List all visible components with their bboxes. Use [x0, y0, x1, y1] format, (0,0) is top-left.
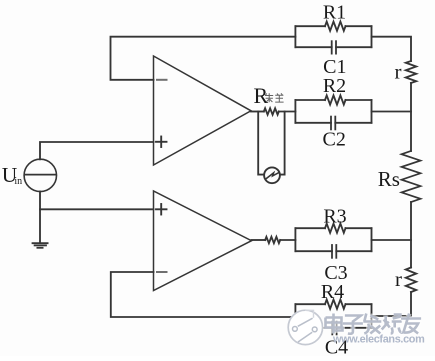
- svg-text:R2: R2: [323, 75, 346, 97]
- wire: R2 output to rail: [372, 111, 412, 113]
- capacitor C1: [295, 41, 371, 53]
- capacitor C2: [295, 117, 371, 130]
- ground: [33, 243, 48, 248]
- wire: source bottom / node to U2 + input: [39, 192, 41, 243]
- wire: to R3 box: [280, 239, 295, 241]
- resistor (U2 output series): [265, 237, 280, 243]
- watermark text dianzifashaoyou: [326, 314, 343, 334]
- wire: node r / R2 junction: [410, 83, 412, 151]
- wire: R1 output to top of rail: [372, 37, 412, 61]
- wire: U1 inverting feedback: [111, 37, 296, 80]
- wire: U2 output: [252, 239, 266, 241]
- wire: R3 output to rail: [372, 239, 412, 241]
- resistor R4 (parallel box): [295, 300, 371, 328]
- svg-text:r: r: [395, 267, 402, 291]
- svg-text:in: in: [14, 176, 22, 187]
- resistor R1 (with C1 parallel box): [295, 22, 371, 48]
- wire: meter right branch: [280, 112, 285, 175]
- meter (galvanometer): [264, 167, 280, 183]
- wire: source top to U1 + input: [40, 142, 154, 159]
- resistor r (top): [406, 61, 416, 83]
- capacitor C4: [295, 322, 371, 335]
- wire: R_sampling to R2 box: [279, 111, 296, 113]
- op-amp U2: [154, 191, 252, 291]
- svg-text:R3: R3: [323, 206, 346, 228]
- svg-text:www.elecfans.com: www.elecfans.com: [332, 333, 425, 345]
- wire: meter left branch: [258, 112, 264, 175]
- wire: r bottom to R4 output: [372, 292, 412, 316]
- wire: U1 output: [251, 111, 264, 113]
- svg-text:C2: C2: [323, 128, 346, 150]
- resistor r (bottom): [406, 268, 416, 293]
- resistor R_sampling: [264, 108, 279, 114]
- wire: U2 inverting feedback: [111, 272, 296, 317]
- source U_in: [24, 159, 56, 191]
- svg-text:r: r: [395, 59, 402, 83]
- capacitor C3: [295, 245, 371, 258]
- resistor R3 (parallel box): [295, 224, 371, 252]
- resistor R2 (parallel box): [295, 95, 371, 122]
- wire: Rs bottom to R3 node: [410, 202, 412, 268]
- watermark logo: [288, 310, 322, 344]
- svg-text:R1: R1: [323, 1, 346, 23]
- op-amp U1: [154, 56, 252, 165]
- resistor Rs: [402, 151, 421, 202]
- svg-text:R4: R4: [321, 281, 344, 303]
- svg-text:Rs: Rs: [378, 167, 400, 191]
